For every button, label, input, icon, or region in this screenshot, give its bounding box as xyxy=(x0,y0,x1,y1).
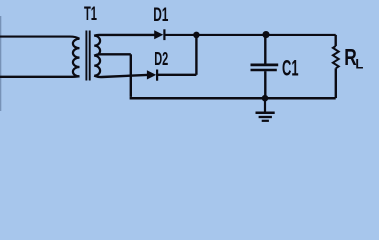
capacitor C1 top lead xyxy=(264,35,266,64)
node junction dot C1 top xyxy=(262,31,269,38)
capacitor C1 bottom plate xyxy=(251,69,277,72)
ground bar 1 xyxy=(256,111,275,114)
diode D2 xyxy=(147,70,158,81)
wire bottom rail xyxy=(130,97,336,100)
transformer T1 core xyxy=(86,31,89,81)
wire secondary bottom terminal to D2 anode xyxy=(94,75,147,77)
wire top rail D1 cathode to RL corner xyxy=(165,34,336,36)
ground bar 3 xyxy=(262,120,269,122)
svg-text:C1: C1 xyxy=(282,55,299,80)
ground bar 2 xyxy=(259,116,272,118)
transformer T1 secondary winding xyxy=(94,36,100,76)
wire D2 cathode to riser xyxy=(158,74,197,76)
capacitor C1 bottom lead xyxy=(264,71,266,98)
scan edge artifact left border xyxy=(0,16,1,111)
wire primary bottom input xyxy=(0,75,80,78)
svg-text:D2: D2 xyxy=(154,48,168,69)
svg-text:D1: D1 xyxy=(153,4,168,26)
transformer T1 primary winding xyxy=(73,39,80,77)
wire center-tap vertical drop xyxy=(130,54,132,97)
diode D1 xyxy=(154,29,165,40)
svg-text:L: L xyxy=(355,56,363,72)
wire secondary center tap xyxy=(94,54,131,55)
capacitor C1 top plate xyxy=(251,64,279,67)
wire D2 output riser up to junction xyxy=(195,35,197,75)
wire primary top input xyxy=(0,37,80,39)
wire RL top lead xyxy=(335,35,337,46)
ground stem xyxy=(264,98,266,112)
wire secondary top terminal to D1 anode xyxy=(94,34,154,37)
wire RL bottom lead xyxy=(335,68,337,98)
svg-text:T1: T1 xyxy=(84,3,97,25)
resistor RL zigzag xyxy=(333,46,339,68)
node junction dot C1 bottom / ground xyxy=(262,95,269,102)
node junction dot D1/D2 outputs xyxy=(193,32,200,39)
